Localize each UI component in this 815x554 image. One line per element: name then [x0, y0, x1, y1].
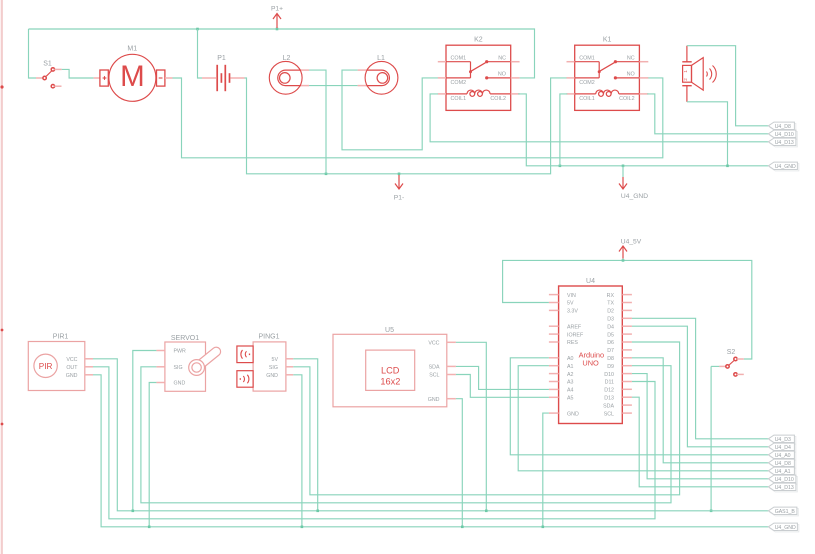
wire PIR1 GND to GND row and U4_GND flag	[93, 375, 768, 527]
wire PING1 GND drop	[293, 375, 302, 527]
svg-text:D2: D2	[607, 309, 614, 315]
ping receive waves	[247, 375, 249, 384]
junction U5 GND	[461, 526, 464, 529]
junction P1- flag	[398, 173, 401, 176]
svg-text:U4_5V: U4_5V	[621, 239, 642, 246]
wire U4 D3 to flag	[632, 318, 769, 439]
net flag U4_D13 top	[770, 140, 798, 147]
svg-text:5V: 5V	[567, 301, 574, 307]
relay K2 COM2 pin	[438, 77, 446, 79]
junction P1+ on rail	[276, 28, 279, 31]
servo horn	[194, 347, 221, 371]
wire L2 top to P1- row	[309, 70, 326, 174]
svg-text:COIL2: COIL2	[619, 96, 635, 102]
arduino U4 pin RX	[622, 294, 632, 296]
svg-text:D13: D13	[604, 395, 614, 401]
svg-text:U4_D8: U4_D8	[775, 124, 791, 130]
arduino U4 pin A4	[549, 388, 559, 390]
svg-text:2: 2	[683, 78, 688, 81]
svg-text:P1: P1	[217, 55, 226, 62]
wire rail to S1	[29, 29, 37, 78]
net flag U4_GND bottom	[770, 525, 799, 532]
arduino U4 pin VIN	[549, 294, 559, 296]
relay K2 NC contact	[485, 60, 488, 63]
wire K2 COIL1 to U4_D13 flag	[430, 94, 768, 142]
svg-text:K2: K2	[474, 37, 483, 44]
svg-text:U4_D10: U4_D10	[775, 477, 794, 483]
relay K1 NC contact	[614, 60, 617, 63]
wire SERVO1 PWR drop	[133, 351, 157, 511]
svg-text:OUT: OUT	[66, 365, 78, 371]
wire SERVO1 GND drop	[149, 383, 156, 527]
wire PING1 5V drop	[293, 359, 317, 511]
relay K1 armature	[598, 62, 600, 78]
relay K1 COM1 pin	[567, 61, 575, 63]
junction U5 VCC	[485, 510, 488, 513]
power flag P1+	[276, 14, 278, 29]
arduino U4 pin A5	[549, 396, 559, 398]
wire speaker bottom to GND row	[687, 102, 728, 166]
svg-text:D8: D8	[607, 356, 614, 362]
svg-text:1: 1	[683, 70, 688, 73]
net flag U4_D8 bottom	[770, 461, 796, 468]
wire speaker top to U4_D8 flag	[687, 46, 769, 126]
svg-text:S1: S1	[43, 61, 52, 68]
svg-text:VCC: VCC	[66, 357, 77, 363]
svg-text:COM2: COM2	[451, 80, 467, 86]
relay K2 NO contact	[485, 76, 488, 79]
svg-text:A1: A1	[567, 364, 574, 370]
svg-text:NC: NC	[627, 55, 635, 61]
junction battery+ on rail	[196, 28, 199, 31]
wire U5 SDA to U4 A4	[456, 366, 549, 389]
net flag U4_A0	[770, 453, 796, 460]
svg-text:A2: A2	[567, 372, 574, 378]
wire U4 D10 to flag	[632, 374, 769, 479]
arduino U4 pin GND	[549, 412, 559, 414]
svg-text:AREF: AREF	[567, 324, 582, 330]
arduino U4 pin A2	[549, 373, 559, 375]
junction U4_GND arrow on GND row	[622, 165, 625, 168]
svg-text:D3: D3	[607, 317, 614, 323]
junction SERVO1 PWR	[132, 510, 135, 513]
wire P1+ rail to K2 NO	[29, 29, 535, 78]
relay K1 COM2 pin	[567, 77, 575, 79]
svg-text:RX: RX	[607, 293, 615, 299]
arduino U4 pin D6	[622, 341, 632, 343]
net flag U4_D13 bottom	[770, 485, 798, 492]
arduino U4 pin RES	[549, 341, 559, 343]
arduino U4 pin A1	[549, 365, 559, 367]
svg-text:PIR1: PIR1	[53, 334, 69, 341]
svg-text:U4_A0: U4_A0	[775, 453, 791, 459]
wire L2 bottom to L1 bottom	[309, 85, 358, 87]
wire U5 GND drop	[456, 399, 462, 527]
arduino U4 pin D13	[622, 396, 632, 398]
power flag U4_5V	[622, 246, 624, 259]
junction PING1 5V	[316, 510, 319, 513]
net flag U4_GND top	[770, 164, 799, 171]
wire K2 COIL2 to GND row and U4_GND flag	[518, 94, 768, 166]
wire U4 A0 to flag	[510, 358, 768, 455]
svg-text:SCL: SCL	[604, 411, 614, 417]
arduino U4 pin 5V	[549, 302, 559, 304]
net flag U4_D10 top	[770, 132, 798, 139]
svg-text:A4: A4	[567, 388, 574, 394]
cropped component at left edge	[1, 0, 3, 554]
svg-text:5V: 5V	[272, 357, 279, 363]
svg-text:SDA: SDA	[603, 403, 614, 409]
svg-text:M1: M1	[127, 46, 137, 53]
svg-text:VCC: VCC	[428, 341, 439, 347]
ping transmit waves	[241, 350, 243, 359]
net flag U4_D4	[770, 445, 796, 452]
arduino U4 pin A3	[549, 381, 559, 383]
svg-text:NC: NC	[498, 55, 506, 61]
svg-text:SDA: SDA	[429, 365, 440, 371]
svg-text:GND: GND	[428, 397, 440, 403]
junction PING1 GND	[301, 526, 304, 529]
relay K2 COM1 pin	[438, 61, 446, 63]
power flag P1-	[398, 175, 400, 189]
svg-text:U4_D8: U4_D8	[775, 461, 791, 467]
svg-text:3.3V: 3.3V	[567, 309, 578, 315]
power flag U4_GND top	[622, 177, 624, 189]
wire L1 top to K2 COM2	[342, 70, 438, 150]
junction L2 on P1- row	[325, 173, 328, 176]
wire U4 A1 to flag	[518, 366, 768, 471]
relay K2 coil	[438, 93, 446, 95]
arduino U4 pin 3.3V	[549, 309, 559, 311]
relay K1 NO contact	[614, 76, 617, 79]
svg-text:D11: D11	[605, 380, 614, 386]
svg-text:16x2: 16x2	[380, 376, 400, 386]
svg-text:A5: A5	[567, 396, 574, 402]
svg-text:IOREF: IOREF	[567, 332, 584, 338]
wire PIR1 OUT to D11 row	[93, 367, 655, 519]
svg-text:GAS1_B: GAS1_B	[775, 509, 796, 515]
svg-text:D10: D10	[604, 372, 614, 378]
arduino U4 pin D11	[622, 381, 632, 383]
arduino U4 pin D10	[622, 373, 632, 375]
junction speaker on GND row	[726, 165, 729, 168]
svg-text:U4_D3: U4_D3	[775, 437, 791, 443]
svg-text:PWR: PWR	[174, 349, 187, 355]
arduino U4 pin D4	[622, 325, 632, 327]
arduino U4 pin TX	[622, 302, 632, 304]
svg-text:SCL: SCL	[429, 373, 439, 379]
junction S2 on GAS1_B row	[710, 510, 713, 513]
junction K1 COIL1 on GND row	[559, 165, 562, 168]
svg-text:P1+: P1+	[271, 6, 283, 13]
svg-text:NO: NO	[627, 71, 635, 77]
svg-text:U4_D13: U4_D13	[775, 140, 794, 146]
relay K1	[575, 45, 640, 110]
arduino U4 pin A0	[549, 357, 559, 359]
net flag U4_D3	[770, 437, 796, 444]
svg-text:D9: D9	[607, 364, 614, 370]
svg-text:COM2: COM2	[579, 80, 595, 86]
svg-text:U4_D13: U4_D13	[775, 485, 794, 491]
svg-text:D4: D4	[607, 324, 614, 330]
wire PING1 SIG to U4 D6	[293, 342, 679, 495]
svg-text:U4_D10: U4_D10	[775, 132, 794, 138]
svg-text:M: M	[120, 60, 145, 93]
wire S1 to M1+	[62, 69, 94, 78]
svg-text:GND: GND	[266, 373, 278, 379]
wire stub to U4_5V arrow	[622, 259, 624, 261]
junction U4 GND	[542, 526, 545, 529]
wire SERVO1 SIG to U4 D9	[141, 366, 671, 503]
wire stub to U4_GND arrow	[622, 166, 624, 177]
svg-text:A0: A0	[567, 356, 574, 362]
arduino U4 pin D12	[622, 388, 632, 390]
svg-text:S2: S2	[727, 349, 736, 356]
svg-text:GND: GND	[567, 411, 579, 417]
wire U5 VCC drop	[456, 342, 486, 511]
svg-text:SIG: SIG	[174, 365, 183, 371]
svg-text:VIN: VIN	[567, 293, 576, 299]
arduino U4 pin D8	[622, 357, 632, 359]
wire U5 SCL to U4 A5	[456, 375, 549, 398]
svg-text:GND: GND	[174, 381, 186, 387]
net flag U4_D8 top	[770, 124, 796, 131]
arduino U4 pin SCL	[622, 412, 632, 414]
svg-text:U4_D4: U4_D4	[775, 445, 791, 451]
wire PIR1 VCC to GAS1_B row and flag	[93, 359, 768, 511]
svg-text:TX: TX	[607, 301, 614, 307]
junction SERVO1 GND	[148, 526, 151, 529]
relay K1 coil	[567, 93, 575, 95]
wire U4 D4 to flag	[632, 326, 769, 447]
net flag U4_D10 bottom	[770, 477, 798, 484]
wire S2 pole to GAS1_B row	[710, 366, 712, 510]
relay K2 armature	[470, 62, 472, 78]
relay K2	[446, 45, 511, 110]
svg-text:PIR: PIR	[39, 362, 53, 371]
svg-text:COIL2: COIL2	[490, 96, 506, 102]
net flag U4_A1	[770, 469, 796, 476]
wire rail to battery+	[198, 29, 203, 78]
wire U4 D8 to flag	[632, 358, 769, 463]
svg-text:D6: D6	[607, 340, 614, 346]
wire K1 COIL1 drop	[560, 94, 567, 166]
svg-text:U4_A1: U4_A1	[775, 469, 791, 475]
svg-text:D5: D5	[607, 332, 614, 338]
svg-text:RES: RES	[567, 340, 578, 346]
svg-text:UNO: UNO	[582, 358, 599, 367]
arduino U4 pin D3	[622, 317, 632, 319]
svg-text:LCD: LCD	[381, 366, 400, 376]
arduino U4 pin D2	[622, 309, 632, 311]
svg-text:P1-: P1-	[394, 195, 404, 202]
svg-text:NO: NO	[498, 71, 506, 77]
speaker sound waves	[706, 72, 709, 77]
wire K1 COIL2 to U4_D10 flag	[647, 94, 768, 134]
svg-text:U4_GND: U4_GND	[621, 193, 648, 200]
arduino U4 pin D9	[622, 365, 632, 367]
svg-text:U5: U5	[385, 327, 394, 334]
svg-text:PING1: PING1	[258, 334, 279, 341]
svg-text:D12: D12	[604, 388, 614, 394]
arduino U4 pin D5	[622, 333, 632, 335]
speaker LS1	[686, 46, 688, 62]
svg-text:SERVO1: SERVO1	[171, 335, 199, 342]
svg-text:U4_GND: U4_GND	[775, 525, 796, 531]
svg-text:D7: D7	[607, 348, 614, 354]
arduino U4 pin AREF	[549, 325, 559, 327]
svg-text:U4_GND: U4_GND	[775, 164, 796, 170]
wire U4 D13 to flag	[632, 397, 769, 487]
svg-text:COM1: COM1	[579, 55, 595, 61]
wire U4 GND drop	[543, 413, 549, 527]
svg-text:COIL1: COIL1	[451, 96, 467, 102]
wire M1- to K1 NO	[173, 78, 663, 158]
wire battery- P1- to K1 COM2	[245, 78, 568, 174]
arduino U4 pin D7	[622, 349, 632, 351]
svg-text:GND: GND	[66, 373, 78, 379]
arduino U4 pin IOREF	[549, 333, 559, 335]
wire U4 5V to S2 rail	[503, 260, 752, 359]
svg-text:SIG: SIG	[269, 365, 278, 371]
arduino U4 pin SDA	[622, 404, 632, 406]
junction U4_5V arrow	[622, 259, 625, 262]
svg-text:K1: K1	[603, 37, 612, 44]
net flag GAS1_B	[770, 509, 799, 516]
svg-text:COIL1: COIL1	[579, 96, 595, 102]
svg-text:U4: U4	[586, 278, 595, 285]
svg-text:COM1: COM1	[451, 55, 467, 61]
svg-text:A3: A3	[567, 380, 574, 386]
